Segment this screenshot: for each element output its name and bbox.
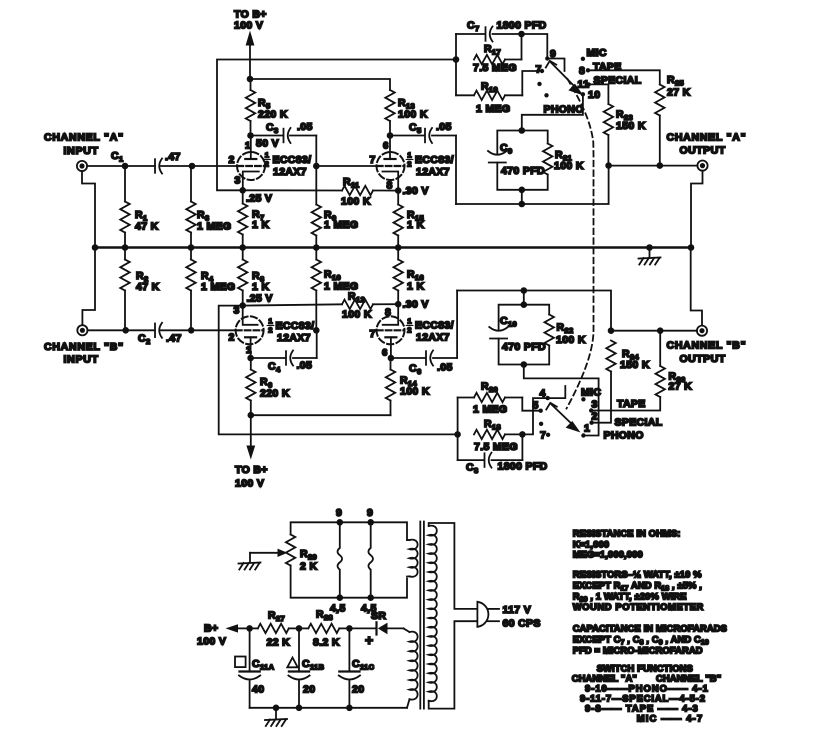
svg-text:.47: .47 <box>165 151 181 163</box>
wire: A feedback loop to cathode <box>217 60 456 191</box>
capacitor C6 <box>425 351 427 365</box>
svg-text:150 K: 150 K <box>620 359 650 371</box>
wire: C5 coupling to output bus <box>390 135 425 137</box>
node: rail ground <box>646 244 653 251</box>
svg-text:INPUT: INPUT <box>64 145 99 157</box>
capacitor C7 <box>485 27 487 41</box>
node: V2B plate <box>388 355 395 362</box>
capacitor C4 <box>285 351 287 365</box>
switch A contact 8 TAPE <box>586 68 590 72</box>
resistor R26 <box>656 366 665 397</box>
node: V2B cathode pin8 <box>395 301 402 308</box>
svg-text:1 MEG: 1 MEG <box>476 103 510 115</box>
svg-text:.25 V: .25 V <box>247 293 273 305</box>
wire: psu ground bus <box>250 707 407 709</box>
svg-text:1 K: 1 K <box>252 281 269 293</box>
node: phono net B bottom <box>521 361 528 368</box>
svg-text:ECC83/: ECC83/ <box>276 320 315 332</box>
svg-text:100 K: 100 K <box>400 386 430 398</box>
resistor R25 <box>655 85 664 116</box>
capacitor C11C <box>348 628 350 671</box>
node: rail output jacks ground <box>688 244 695 251</box>
svg-text:1: 1 <box>268 317 272 326</box>
svg-text:100 V: 100 V <box>197 636 226 648</box>
primary winding <box>429 526 437 702</box>
svg-text:2: 2 <box>265 160 269 169</box>
svg-text:WOUND POTENTIOMETER: WOUND POTENTIOMETER <box>573 601 704 612</box>
svg-text:1 MEG: 1 MEG <box>197 221 231 233</box>
triode V1A cathode <box>243 172 259 191</box>
wire: A lower bus <box>456 166 609 204</box>
triode V1A plate <box>250 136 252 160</box>
wire: B upper bus <box>457 291 611 331</box>
svg-text:.25 V: .25 V <box>246 193 272 205</box>
wire: primary top lead <box>429 523 477 609</box>
capacitor C11A <box>249 628 251 671</box>
resistor R19 <box>456 94 474 96</box>
svg-text:1 K: 1 K <box>252 219 269 231</box>
svg-text:20: 20 <box>352 684 364 696</box>
wire: R18 node to contact 4 <box>522 398 547 434</box>
node: C2 right junction <box>188 327 195 334</box>
svg-text:1 MEG: 1 MEG <box>473 404 507 416</box>
node: rail R15R16 <box>395 244 402 251</box>
triode V2A cathode <box>243 306 258 325</box>
resistor R3 <box>190 166 192 202</box>
svg-text:9: 9 <box>367 507 373 519</box>
node: A output bus R25 <box>657 162 664 169</box>
node: phono net A bottom <box>519 187 526 194</box>
svg-text:1: 1 <box>265 151 269 160</box>
svg-text:ECC83/: ECC83/ <box>415 154 454 166</box>
node: rail R9R10 <box>313 244 320 251</box>
wire: SPECIAL to R23 <box>589 84 609 104</box>
svg-text:2 K: 2 K <box>300 561 317 573</box>
svg-text:100 V: 100 V <box>235 478 264 490</box>
node: V1A plate <box>247 132 254 139</box>
resistor R14 <box>390 358 392 370</box>
switch B contact 3 TAPE <box>589 408 593 412</box>
wire: phono box A <box>497 131 547 155</box>
svg-text:1: 1 <box>407 151 411 160</box>
node: C7/R17 junction <box>518 31 525 38</box>
resistor R1 <box>124 166 126 202</box>
svg-text:220 K: 220 K <box>258 109 288 121</box>
resistor R16 <box>397 248 399 260</box>
rectifier winding <box>410 632 418 700</box>
wire: grid node to V1B <box>316 165 376 167</box>
node: phono net B bus junction <box>521 287 528 294</box>
wire: heater bottom rail <box>291 566 407 598</box>
svg-text:3: 3 <box>592 399 598 411</box>
node: A output bus R23 <box>605 162 612 169</box>
svg-text:100 V: 100 V <box>234 20 263 32</box>
wire: C8 branch <box>458 459 484 461</box>
switch A spare contacts <box>537 82 541 86</box>
wire: cathode link row A <box>243 189 342 191</box>
node: C11B top <box>296 625 303 632</box>
wire: common ground rail <box>95 246 691 248</box>
svg-text:ECC83/: ECC83/ <box>415 320 454 332</box>
svg-text:2: 2 <box>407 326 411 335</box>
capacitor C5 <box>424 129 426 143</box>
svg-text:6: 6 <box>383 141 389 152</box>
resistor R13 <box>385 90 394 121</box>
svg-text:2: 2 <box>229 154 235 166</box>
svg-text:.05: .05 <box>297 360 313 372</box>
ground symbol (rail) <box>649 248 651 258</box>
node: heater rail 9 a <box>337 519 344 526</box>
resistor R7 <box>242 190 244 203</box>
wire: B output jack ground <box>691 248 702 326</box>
svg-text:9: 9 <box>336 507 342 519</box>
resistor R6 <box>250 358 252 370</box>
node: feedback net A left <box>453 56 460 63</box>
svg-text:MIC —— 4-7: MIC —— 4-7 <box>637 712 704 723</box>
svg-text:RESISTORS–½ WATT, ±10 %: RESISTORS–½ WATT, ±10 % <box>573 568 702 579</box>
node: rail R7R8 <box>239 244 246 251</box>
svg-text:8.2 K: 8.2 K <box>313 637 340 649</box>
resistor R23 <box>604 104 613 135</box>
switch A contact 9 <box>545 56 549 60</box>
svg-text:117 V: 117 V <box>503 604 532 616</box>
node: rail x95 <box>92 244 99 251</box>
svg-text:470 PFD: 470 PFD <box>501 165 545 177</box>
wire: phono box B <box>499 305 550 331</box>
wire: A output jack ground <box>691 171 703 248</box>
svg-text:470 PFD: 470 PFD <box>502 341 546 353</box>
triode V1B grid <box>377 165 404 167</box>
resistor R8 <box>242 248 244 260</box>
node: B output bus R26 <box>657 327 664 334</box>
wire: B+ rail channel A <box>250 79 390 90</box>
svg-text:RESISTANCE IN OHMS:: RESISTANCE IN OHMS: <box>573 528 681 539</box>
ground symbol (psu) <box>275 708 277 719</box>
svg-text:100 K: 100 K <box>554 160 584 172</box>
node: V1B plate <box>387 132 394 139</box>
svg-text:.30 V: .30 V <box>403 185 429 197</box>
svg-text:1: 1 <box>407 317 411 326</box>
switch A contact 10 <box>581 92 585 96</box>
svg-text:OUTPUT: OUTPUT <box>680 145 726 157</box>
switch A contact 11 SPECIAL <box>587 82 591 86</box>
triode V2B envelope <box>377 316 405 344</box>
wire: TAPE to R25 <box>588 70 660 84</box>
heater element a <box>338 522 343 597</box>
node: heater rail 45 a <box>337 594 344 601</box>
svg-text:2: 2 <box>268 326 272 335</box>
svg-text:6: 6 <box>382 348 388 359</box>
resistor R11 <box>342 186 373 195</box>
svg-text:1: 1 <box>246 345 252 356</box>
node: rail R1R2 <box>122 244 129 251</box>
resistor R2 <box>124 248 126 260</box>
svg-text:47 K: 47 K <box>136 281 160 293</box>
AC plug prongs <box>488 608 500 610</box>
resistor R21 <box>543 144 552 175</box>
svg-text:22 K: 22 K <box>267 637 291 649</box>
resistor R28 <box>308 624 339 633</box>
heater winding <box>410 540 418 577</box>
switch B contact 1 PHONO <box>581 433 585 437</box>
svg-text:60 CPS: 60 CPS <box>503 618 541 630</box>
node: heater rail 45 b <box>367 594 374 601</box>
resistor R5 <box>250 79 252 90</box>
capacitor C2 <box>154 324 156 338</box>
svg-text:7: 7 <box>370 328 376 340</box>
switch B contact 2 SPECIAL <box>589 421 593 425</box>
svg-text:1 MEG: 1 MEG <box>201 281 235 293</box>
svg-text:+: + <box>365 632 373 648</box>
svg-text:7: 7 <box>540 430 546 442</box>
triode V1B plate <box>389 136 391 160</box>
svg-text:40: 40 <box>252 684 264 696</box>
wire: B jack ground stub <box>82 248 95 326</box>
switch A contact 7 <box>540 69 544 73</box>
R29 wiper arrow <box>250 552 279 554</box>
svg-text:CAPACITANCE IN MICROFARADS: CAPACITANCE IN MICROFARADS <box>573 622 727 633</box>
svg-text:OUTPUT: OUTPUT <box>680 353 726 365</box>
capacitor C9 <box>488 151 507 155</box>
node: C1 right junction <box>189 163 196 170</box>
svg-text:100 K: 100 K <box>341 196 371 208</box>
wire: A jack ground stub <box>82 171 95 247</box>
input jack J2 channel B <box>77 325 87 335</box>
svg-text:ECC83/: ECC83/ <box>273 154 312 166</box>
svg-text:8: 8 <box>579 65 585 77</box>
wire: feedback bracket B <box>457 398 459 461</box>
svg-text:100 K: 100 K <box>398 109 428 121</box>
capacitor C10 <box>489 327 508 331</box>
svg-text:2: 2 <box>229 332 235 344</box>
input jack J1 channel A <box>77 161 87 171</box>
svg-text:1800 PFD: 1800 PFD <box>497 20 547 32</box>
node: C1 left junction <box>122 163 129 170</box>
node: feedback net B left <box>454 431 461 438</box>
node: C2 left junction <box>122 327 129 334</box>
triode V2B grid <box>377 329 404 331</box>
resistor R24 <box>606 341 615 372</box>
svg-text:47 K: 47 K <box>135 221 159 233</box>
wire: heater top rail <box>291 522 407 540</box>
svg-text:7: 7 <box>536 64 542 76</box>
svg-text:MIC: MIC <box>587 47 607 59</box>
capacitor C1 <box>154 159 156 173</box>
wire: C6 coupling to B bus <box>391 357 426 359</box>
node: rail R3R4 <box>188 244 195 251</box>
wire: C4 coupling <box>251 357 286 359</box>
node: B+ rail A <box>247 76 254 83</box>
wire: A output bus <box>609 165 698 167</box>
svg-text:MEG=1,000,000: MEG=1,000,000 <box>573 549 643 560</box>
potentiometer R29 <box>286 535 295 566</box>
output jack J3 channel A <box>697 161 707 171</box>
wire: C3 coupling plate V1A to grid node <box>251 135 284 137</box>
switch B contact 5 <box>539 409 543 413</box>
power arrow B+ out <box>226 624 239 632</box>
node: C8/R18 junction <box>519 431 526 438</box>
svg-text:12AX7: 12AX7 <box>277 332 311 344</box>
svg-text:CHANNEL "B": CHANNEL "B" <box>667 340 747 352</box>
switch B contact MIC <box>581 397 585 401</box>
wire: feedback bracket A <box>455 34 457 95</box>
wire: contact 9 stub <box>547 59 564 72</box>
svg-text:.05: .05 <box>436 121 452 133</box>
switch B spare contacts <box>539 422 543 426</box>
triode V1B cathode <box>383 172 399 191</box>
svg-text:1 K: 1 K <box>407 219 424 231</box>
node: psu gnd stem <box>273 705 280 712</box>
resistor R17 <box>474 55 505 64</box>
svg-text:2: 2 <box>592 411 598 423</box>
node: V1B grid <box>313 163 320 170</box>
svg-text:7.5 MEG: 7.5 MEG <box>473 62 517 74</box>
svg-text:CHANNEL "A": CHANNEL "A" <box>44 132 124 144</box>
triode V1A grid <box>238 165 265 167</box>
svg-text:MIC: MIC <box>581 387 601 399</box>
AC plug <box>477 602 488 627</box>
resistor R10 <box>315 248 317 260</box>
wire: contact 10 to phono net A <box>522 94 583 130</box>
wire: B output bus <box>611 330 697 332</box>
rectifier SR <box>375 622 377 634</box>
switch A wiper arm <box>551 63 579 91</box>
wire: cathode link row B <box>243 304 342 305</box>
node: C11A top <box>246 625 253 632</box>
svg-text:TO B+: TO B+ <box>235 464 268 476</box>
svg-text:TAPE: TAPE <box>617 398 646 410</box>
wire: SPECIAL to R24 <box>592 372 611 423</box>
svg-text:1 K: 1 K <box>407 281 424 293</box>
svg-text:SPECIAL: SPECIAL <box>615 417 663 429</box>
triode V2B cathode <box>383 304 399 325</box>
node: C11B bottom <box>296 705 303 712</box>
svg-text:12AX7: 12AX7 <box>416 332 450 344</box>
svg-text:27 K: 27 K <box>669 381 693 393</box>
svg-text:1800 PFD: 1800 PFD <box>498 461 548 473</box>
svg-text:10: 10 <box>588 89 600 101</box>
svg-text:PFD = MICRO-MICROFARAD: PFD = MICRO-MICROFARAD <box>573 644 703 655</box>
node: B+ rail B <box>248 412 255 419</box>
svg-text:3: 3 <box>235 175 241 187</box>
label C11B 20 and triangle symbol <box>287 658 297 668</box>
node: phono net B top <box>521 301 528 308</box>
svg-text:.47: .47 <box>166 333 182 345</box>
svg-text:4: 4 <box>540 388 546 400</box>
transformer core <box>419 522 421 709</box>
svg-text:.05: .05 <box>437 362 453 374</box>
node: heater rail 9 b <box>367 519 374 526</box>
triode V1B envelope <box>377 152 405 180</box>
wire: phono net A to bus <box>521 190 523 204</box>
svg-text:1 MEG: 1 MEG <box>324 219 358 231</box>
svg-text:INPUT: INPUT <box>64 354 99 366</box>
svg-text:5: 5 <box>533 400 539 412</box>
node: A lower bus junction <box>519 201 526 208</box>
node: V1A cathode <box>239 187 246 194</box>
svg-text:50 V: 50 V <box>256 138 279 150</box>
svg-text:220 K: 220 K <box>260 388 290 400</box>
svg-text:7: 7 <box>370 154 376 166</box>
label C11A 40 and square symbol <box>235 657 246 668</box>
resistor R20 <box>458 397 474 399</box>
wire: C11C node to rectifier <box>349 627 376 629</box>
wire: phono net B to contact 1 <box>524 365 599 436</box>
svg-text:12AX7: 12AX7 <box>273 166 307 178</box>
wire: phono net B to bus <box>523 291 525 305</box>
svg-text:.05: .05 <box>297 121 313 133</box>
node: B output bus R24 <box>608 327 615 334</box>
triode V2B plate <box>390 337 392 358</box>
svg-text:100 K: 100 K <box>556 334 586 346</box>
wire: B+ rail channel B <box>251 414 391 416</box>
svg-text:2: 2 <box>407 160 411 169</box>
wire: C7 node to contact 9 <box>522 34 548 59</box>
wire: primary bottom lead <box>429 621 477 708</box>
node: phono net A top <box>519 127 526 134</box>
wire: A input row jack to tube V1A grid <box>87 165 155 167</box>
power arrow to B+ (bottom) <box>250 415 252 446</box>
capacitor C3 <box>283 129 285 143</box>
switch A contact MIC <box>581 57 585 61</box>
output jack J4 channel B <box>697 326 707 336</box>
resistor R4 <box>190 248 192 260</box>
resistor R9 <box>315 166 317 205</box>
ground symbol (R29 wiper) <box>239 563 261 564</box>
svg-text:SR: SR <box>371 610 386 622</box>
capacitor C11B <box>298 628 300 671</box>
svg-text:12AX7: 12AX7 <box>416 166 450 178</box>
resistor R15 <box>397 191 399 205</box>
svg-text:7.5 MEG: 7.5 MEG <box>474 441 518 453</box>
triode V2A grid <box>236 329 263 331</box>
node: C11C top <box>346 625 353 632</box>
triode V2A plate <box>250 337 252 358</box>
svg-text:.30 V: .30 V <box>403 299 429 311</box>
resistor R12 <box>342 300 373 309</box>
svg-text:B+: B+ <box>204 623 218 635</box>
svg-text:20: 20 <box>303 684 315 696</box>
power arrow to B+ (top) <box>246 31 255 46</box>
triode V2A envelope <box>236 316 264 344</box>
dashed line: ganged switch link <box>567 79 594 409</box>
wire: B feedback loop to cathode <box>219 306 458 435</box>
node: V1B cathode pin8 <box>395 187 402 194</box>
svg-text:150 K: 150 K <box>616 120 646 132</box>
svg-text:1: 1 <box>584 423 590 435</box>
node: V2A plate <box>247 355 254 362</box>
switch B contact 4 <box>546 396 550 400</box>
svg-text:CHANNEL "B": CHANNEL "B" <box>44 341 124 353</box>
svg-text:PHONO: PHONO <box>544 104 584 116</box>
wire: contact 4 stub <box>548 386 566 398</box>
svg-text:100 K: 100 K <box>342 309 372 321</box>
node: V2A cathode <box>239 302 246 309</box>
node: C11C bottom <box>346 705 353 712</box>
svg-text:CHANNEL "A": CHANNEL "A" <box>667 132 747 144</box>
svg-text:PHONO: PHONO <box>604 430 644 442</box>
heater element b <box>368 522 373 597</box>
node: V2B grid <box>313 327 320 334</box>
resistor R18 <box>474 430 505 439</box>
svg-text:27 K: 27 K <box>667 87 691 99</box>
triode V1A envelope <box>237 152 265 180</box>
wire: TAPE to R26 <box>591 397 660 411</box>
wire: C7 branch <box>456 33 484 35</box>
resistor R22 <box>545 315 554 346</box>
capacitor C8 <box>484 453 486 467</box>
wire: B input row <box>88 329 155 331</box>
